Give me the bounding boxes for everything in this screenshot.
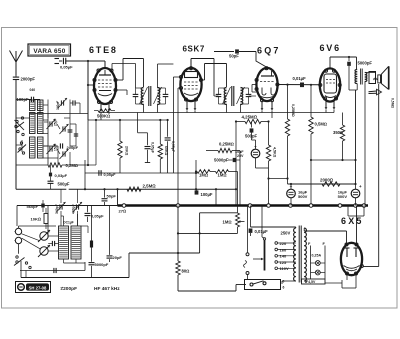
capacitor 500uF (48, 181, 70, 186)
IF2 right winding (241, 88, 243, 113)
tube 6X5 envelope (341, 243, 362, 275)
osc switch contacts (14, 256, 25, 266)
resistor feedback 4,25M (235, 114, 270, 160)
wire 6V6 plate top (330, 56, 357, 69)
IF2 right cap (241, 88, 257, 104)
tube 6Q7 internals (259, 71, 275, 98)
svg-text:HF 467 kHz: HF 467 kHz (94, 286, 120, 292)
wire left mesh e (43, 120, 58, 154)
resistor grid 0,5M (309, 85, 327, 206)
capacitor 20pF (107, 206, 123, 263)
resistor 0,2M (16, 163, 85, 168)
svg-text:VARA 650: VARA 650 (33, 48, 65, 55)
band switch wafer (15, 117, 25, 136)
tube 6SK7 internals (184, 72, 198, 96)
svg-text:0,05µF: 0,05µF (171, 141, 175, 153)
coil L0a (30, 100, 36, 111)
svg-text:0,5MΩ: 0,5MΩ (391, 98, 395, 109)
svg-text:0,2MΩ: 0,2MΩ (66, 163, 79, 168)
output transformer core (361, 69, 363, 85)
svg-text:6X5: 6X5 (341, 216, 364, 226)
wire pot bottom (178, 232, 238, 234)
label OC1 (63, 221, 74, 225)
tube 6TE8 pin circles (93, 69, 117, 104)
capacitor osc pad (54, 268, 56, 273)
capacitor 500pF (245, 122, 258, 141)
wire 6Q7 grid (0, 0, 1, 1)
wire bus stub loop (348, 206, 364, 217)
trimmer gang C1 (38, 230, 50, 242)
wire link 6Q7 B+ (267, 177, 288, 179)
svg-text:20KΩ: 20KΩ (125, 146, 129, 156)
resistor 60K (158, 119, 168, 173)
speaker voice coil (373, 73, 380, 83)
capacitor 0,05uF bus (85, 206, 105, 223)
wire cluster top (43, 100, 58, 119)
capacitor 0,05uF return (99, 170, 116, 177)
capacitor 0,05uF a (145, 133, 155, 163)
wire to switch box (178, 285, 246, 292)
svg-text:≠200pF: ≠200pF (61, 286, 78, 292)
tube label 6Q7 (257, 46, 281, 56)
svg-text:50pF: 50pF (107, 194, 117, 199)
selector taps (275, 242, 296, 270)
osc switch contact B (15, 237, 22, 243)
svg-text:0,05µF: 0,05µF (91, 214, 104, 219)
trimmer gang C2 (38, 245, 50, 257)
mains switch box (245, 280, 285, 290)
logo text SH 27-08 (26, 283, 49, 290)
label voice coil 0,5M (391, 98, 395, 109)
trimmer C t1 (47, 119, 56, 129)
capacitor 16uF a (287, 184, 308, 206)
wire x167 (165, 119, 171, 173)
resistor 4,5K cathode (266, 134, 276, 206)
text 27 ohm (119, 209, 127, 214)
svg-text:0,25MΩ: 0,25MΩ (219, 142, 234, 147)
svg-text:6Q7: 6Q7 (257, 46, 281, 56)
svg-text:1MΩ: 1MΩ (218, 172, 227, 177)
svg-text:+: + (359, 184, 362, 189)
wire AVC rail y189 (16, 188, 236, 190)
svg-text:140: 140 (280, 254, 287, 259)
tube 6X5 pin circles (345, 243, 363, 275)
bus junction x124 (122, 204, 126, 208)
svg-text:60KΩ: 60KΩ (164, 146, 168, 156)
wire coil tops (30, 114, 88, 119)
text 250V (281, 230, 291, 235)
capacitor 100pF (16, 97, 40, 103)
svg-text:040: 040 (30, 88, 36, 92)
capacitor 10uF 25V (235, 140, 268, 168)
svg-text:200pF: 200pF (67, 145, 79, 150)
wire left mesh b (64, 118, 72, 165)
svg-text:0,01µF: 0,01µF (255, 229, 269, 234)
tube 6Q7 pin circles (255, 67, 279, 102)
svg-text:500V: 500V (298, 194, 308, 199)
wire 6X5 bottom pins (347, 275, 356, 280)
svg-text:1MΩ: 1MΩ (199, 172, 208, 177)
bus junction x355.5 (354, 204, 358, 208)
capacitor trim 340pF (55, 189, 66, 226)
text 0,25A (312, 254, 322, 258)
bus B- main (118, 204, 369, 207)
coil L2a (30, 137, 36, 158)
svg-text:560pF: 560pF (27, 204, 39, 209)
tube 6V6 envelope (320, 68, 340, 101)
svg-text:6SK7: 6SK7 (183, 45, 205, 54)
wire x85 riser (84, 160, 86, 189)
wire x139 (138, 113, 148, 133)
svg-text:0,05µF: 0,05µF (60, 64, 73, 69)
wire x236 riser (235, 160, 237, 206)
svg-text:160: 160 (280, 247, 287, 252)
trimmer C t3 (60, 124, 69, 134)
svg-text:125: 125 (280, 260, 287, 265)
resistor 0,25M AVC (206, 142, 240, 153)
output transformer primary (355, 57, 357, 184)
svg-text:220: 220 (280, 241, 287, 246)
svg-text:2000pF: 2000pF (21, 77, 36, 82)
IF1 trimmer arrows (140, 87, 162, 104)
tube 6SK7 pin circles (180, 67, 203, 101)
svg-text:6TE8: 6TE8 (89, 45, 118, 55)
resistor 80ohm (176, 206, 190, 292)
filament voltage box (302, 279, 326, 284)
wire x177 to bus (177, 113, 179, 206)
wire 6X5 plate 1 (346, 231, 348, 243)
tube label 6TE8 (89, 45, 118, 55)
IF1 right cap (158, 88, 169, 104)
tube 6V6 filament pins (325, 100, 336, 113)
svg-text:5000pF: 5000pF (358, 61, 373, 66)
wire 6TE8 left (87, 64, 136, 89)
svg-text:110V: 110V (280, 266, 289, 271)
capacitor 560pF (27, 200, 45, 212)
wire 6SK7 grid top (191, 59, 214, 97)
capacitor trim 400pF (72, 189, 83, 226)
power transformer core (299, 226, 301, 283)
voltage selector bar (262, 206, 266, 271)
capacitor 5000pF AVC (214, 151, 240, 206)
oscillator mesh a (25, 262, 31, 269)
tap labels (280, 241, 289, 271)
IF2 left winding (224, 88, 226, 113)
tube 6Q7 envelope (256, 68, 277, 101)
svg-text:5000pF: 5000pF (95, 262, 109, 267)
speaker arrow (369, 89, 382, 95)
svg-text:SH 27-08: SH 27-08 (29, 286, 47, 291)
svg-text:0,05µF: 0,05µF (104, 173, 117, 177)
wire x16 down (15, 80, 17, 189)
tube 6TE8 envelope (94, 68, 116, 104)
capacitor 200pF (60, 143, 78, 149)
svg-text:6: 6 (283, 286, 285, 290)
trimmer C t4 (60, 149, 69, 159)
svg-text:15pF: 15pF (54, 144, 58, 151)
resistor 10K (31, 208, 49, 229)
wire 6X5 plate 2 (356, 206, 358, 244)
svg-text:10KΩ: 10KΩ (31, 216, 41, 221)
resistor 2000ohm (320, 177, 340, 186)
antenna (10, 51, 23, 76)
IF2 left cap (214, 88, 227, 104)
capacitor trim label a (54, 119, 58, 126)
tube 6V6 internals (324, 74, 337, 98)
potentiometer 1M volume (223, 172, 245, 234)
wire transformer top (251, 226, 296, 228)
capacitor 100uF (195, 189, 213, 197)
IF2 trimmer arrows (223, 87, 245, 104)
wire osc a (19, 206, 57, 278)
capacitor 0,01uF mains (249, 206, 268, 237)
svg-text:500V: 500V (338, 194, 348, 199)
svg-text:2,5MΩ: 2,5MΩ (143, 184, 157, 189)
wire osc c (22, 234, 59, 278)
logo box (16, 282, 51, 293)
IF1 left winding (141, 88, 143, 113)
bus junction x268.5 (267, 204, 271, 208)
wire x216 (215, 188, 217, 205)
tube 6SK7 filament pins (186, 101, 197, 113)
capacitor 5000pF out (347, 57, 372, 90)
svg-text:340pF: 340pF (56, 101, 60, 110)
svg-text:27Ω: 27Ω (119, 209, 127, 214)
wire 6TE8 plate to IF1 (116, 59, 143, 88)
capacitor 0,01uF coupling (293, 76, 307, 87)
oscillator mesh b (61, 214, 88, 233)
power transformer primary (282, 227, 296, 284)
svg-text:20pF: 20pF (113, 255, 123, 260)
capacitor 0,03uF (49, 165, 68, 189)
osc switch contact A (15, 228, 22, 234)
text HF 467 kHz (94, 286, 120, 292)
capacitor 2000pF (13, 75, 36, 98)
wire filament rail (99, 112, 334, 114)
label 040 (30, 88, 36, 92)
capacitor 0,05uF antenna coupling (60, 58, 105, 70)
node grid 6TE8 junction (87, 60, 89, 62)
tube 6X5 internals (344, 248, 360, 271)
svg-text:+: + (290, 184, 293, 189)
wire AVC bottom (21, 252, 200, 278)
svg-text:2000Ω: 2000Ω (320, 177, 334, 182)
filament leads F F (308, 242, 326, 279)
wire 100pF to coils (39, 100, 41, 114)
svg-text:0,25MΩ: 0,25MΩ (291, 104, 295, 117)
resistor 1M a (197, 170, 210, 178)
pilot lamp 1 (311, 261, 326, 266)
svg-text:500µF: 500µF (58, 181, 70, 186)
resistor 350ohm cathode (310, 113, 357, 162)
svg-text:100µF: 100µF (201, 192, 213, 197)
tube 6Q7 filament pins (261, 102, 274, 119)
svg-text:350Ω: 350Ω (333, 130, 343, 135)
bus junction x311 (309, 204, 313, 208)
tube label 6V6 (320, 43, 341, 53)
trimmer label 340 (56, 101, 60, 110)
text 200pF (61, 286, 78, 292)
tube label 6SK7 (183, 45, 205, 54)
resistor 20K (118, 119, 129, 173)
svg-text:250V: 250V (281, 230, 291, 235)
IF1 core (149, 86, 151, 106)
wire antenna to band switch (87, 61, 89, 120)
model label box VARA 650 (28, 44, 71, 56)
coil L1a (30, 113, 36, 134)
bus riser start (117, 189, 119, 205)
wire 6X5 cathode right (363, 84, 379, 267)
speaker magnet (369, 72, 376, 84)
tube label 6X5 (341, 216, 364, 226)
resistor 2,5M (127, 184, 156, 192)
IF2 core (232, 86, 234, 106)
coil L0b (38, 100, 44, 111)
bus junction x364 (362, 204, 366, 208)
pilot lamp 2 (311, 270, 326, 275)
svg-text:25V: 25V (237, 154, 244, 158)
wire B+ rail (288, 183, 357, 185)
tube 6TE8 internals (98, 70, 112, 96)
wire lamp box to 6X5 (325, 280, 356, 288)
bus left thin wire (17, 206, 118, 227)
svg-text:ø 4,5V: ø 4,5V (305, 280, 316, 284)
svg-text:4,25MΩ: 4,25MΩ (242, 114, 258, 119)
mains lead a (244, 206, 250, 280)
capacitor 16uF b (338, 184, 362, 206)
capacitor 0,05uF b (171, 113, 175, 174)
coil L1b (38, 113, 44, 134)
wire 6SK7 plate (201, 64, 227, 88)
switch contacts lower (18, 142, 27, 154)
bus junction x178 (176, 204, 180, 208)
capacitor 50pF (214, 49, 266, 66)
resistor plate load 0,25M (285, 85, 295, 184)
svg-text:0: 0 (283, 280, 285, 284)
wire left mesh f (70, 124, 78, 146)
wire 6SK7 left (173, 77, 181, 113)
tube 6TE8 filament pins (100, 103, 111, 120)
IF1 right winding (158, 64, 174, 113)
svg-text:0,01µF: 0,01µF (293, 76, 307, 81)
wire grid return (85, 160, 197, 189)
svg-text:0,5MΩ: 0,5MΩ (315, 122, 328, 127)
svg-text:OC1µF: OC1µF (63, 221, 74, 225)
wire 6Q7 plate coupling (277, 84, 320, 86)
svg-text:25pF: 25pF (54, 119, 58, 126)
selector arrow (253, 258, 264, 260)
svg-text:0,05µF: 0,05µF (151, 142, 155, 154)
capacitor 50pF bus (102, 188, 117, 205)
capacitor input tuned (70, 100, 80, 119)
resistor 1M b (196, 170, 238, 178)
wire left mesh d (85, 119, 97, 165)
wire left mesh a (16, 118, 30, 152)
svg-text:80Ω: 80Ω (182, 269, 190, 274)
wire tone loop (177, 213, 238, 253)
trimmer C t0 (58, 98, 67, 108)
bus junction x250 (248, 204, 252, 208)
wire left mesh c (43, 134, 58, 166)
bus junction x340 (338, 204, 342, 208)
wire 6TE8 grid top (104, 61, 106, 69)
svg-text:500KΩ: 500KΩ (97, 114, 110, 119)
wire mid-left a (44, 118, 60, 165)
trimmer C t2 (47, 144, 56, 154)
svg-text:0,25A: 0,25A (312, 254, 322, 258)
coil L2b (38, 137, 44, 158)
wire x88 down (87, 120, 89, 166)
bus junction x290.5 (289, 204, 293, 208)
capacitor trim label b (54, 144, 58, 151)
power transformer secondary (304, 228, 346, 281)
speaker cone (381, 66, 388, 89)
svg-text:1MΩ: 1MΩ (223, 220, 232, 225)
svg-text:50pF: 50pF (229, 53, 239, 58)
wire osc b (20, 259, 85, 271)
svg-text:5000pF: 5000pF (214, 158, 229, 163)
resistor 500K (88, 109, 168, 120)
capacitor 5000pF osc (89, 206, 109, 278)
output transformer secondary (365, 73, 376, 206)
capacitor padder (48, 241, 58, 246)
oscillator coil LO1 (59, 226, 69, 259)
svg-text:0,03µF: 0,03µF (55, 173, 68, 178)
tube 6SK7 envelope (180, 68, 201, 101)
svg-text:4,5KΩ: 4,5KΩ (273, 147, 277, 158)
oscillator coil LO2 (71, 226, 81, 259)
IF1 left cap (116, 88, 143, 104)
input terminal (55, 59, 63, 64)
svg-text:6V6: 6V6 (320, 43, 341, 53)
tube 6V6 pin circles (319, 69, 341, 100)
wire 6Q7 diode left (252, 85, 257, 93)
